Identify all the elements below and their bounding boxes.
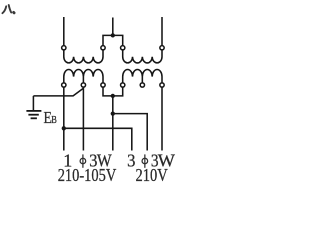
terminal primary T1 left: [62, 46, 66, 50]
svg-text:B: B: [51, 115, 57, 126]
svg-text:210-105V: 210-105V: [58, 165, 117, 185]
terminal secondary T2 right: [160, 83, 164, 87]
transformer T1 primary winding: [64, 50, 103, 63]
node L1 branch junction: [62, 126, 66, 130]
terminal primary T2 left: [121, 46, 125, 50]
wire B split horizontal: [103, 35, 123, 45]
terminal secondary T1 left: [62, 83, 66, 87]
wire ground stem: [32, 96, 34, 110]
wire HV line B: [112, 18, 114, 36]
wire ground horizontal: [33, 88, 83, 96]
wire v-phase down: [112, 96, 114, 151]
wire HV line A: [63, 17, 65, 46]
terminal secondary T2 center tap: [140, 83, 144, 87]
wire 3ph u-phase branch: [64, 128, 132, 150]
wire 3ph w-phase down: [161, 87, 163, 150]
node B split junction: [111, 33, 115, 37]
terminal primary T2 right: [160, 46, 164, 50]
wire T2 left lead to V point: [113, 87, 123, 96]
node V junction: [111, 94, 115, 98]
terminal primary T1 right: [101, 46, 105, 50]
phi symbol 1ph: [80, 154, 86, 167]
terminal secondary T1 right: [101, 83, 105, 87]
label ハ. (answer choice marker): [2, 5, 14, 13]
svg-text:210V: 210V: [136, 165, 168, 185]
transformer T1 secondary winding: [64, 69, 103, 82]
ground symbol: [26, 111, 41, 118]
node v-phase branch junction: [111, 111, 115, 115]
terminal secondary T1 center tap: [81, 83, 85, 87]
transformer T2 secondary winding: [123, 69, 162, 82]
terminal secondary T2 left: [121, 83, 125, 87]
wire neutral center tap down: [82, 87, 84, 150]
wire T1 right lead to V point: [103, 87, 113, 96]
svg-text:3: 3: [127, 150, 135, 170]
transformer T2 primary winding: [123, 50, 162, 63]
wire 1ph line L1 down: [63, 87, 65, 150]
phi symbol 3ph: [142, 154, 148, 167]
wire HV line C: [161, 17, 163, 46]
wire 3ph v-phase branch: [113, 114, 147, 151]
